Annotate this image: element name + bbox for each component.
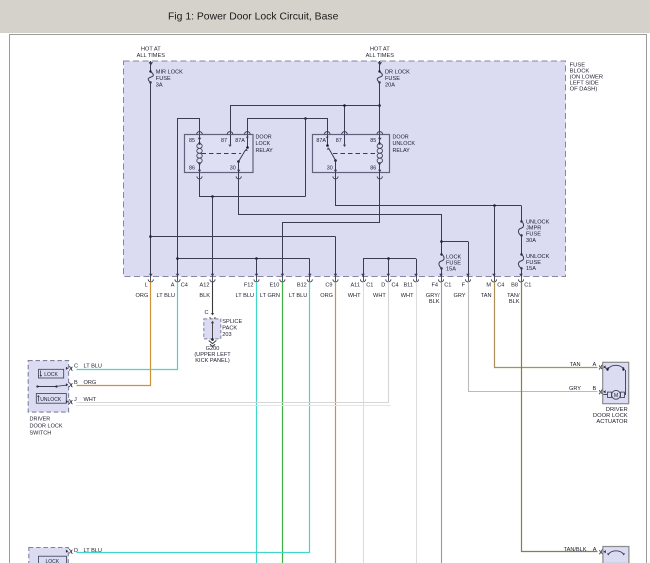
svg-text:TAN: TAN bbox=[570, 362, 581, 368]
fuse LOCK FUSE 15A bbox=[439, 253, 462, 276]
svg-text:15A: 15A bbox=[526, 266, 536, 272]
svg-text:F12: F12 bbox=[244, 282, 254, 288]
relay K1 pin 87 stub bbox=[228, 135, 231, 148]
relay K1 dashed link bbox=[202, 153, 242, 155]
title bar bbox=[0, 0, 650, 33]
svg-text:LT BLU: LT BLU bbox=[84, 364, 102, 370]
svg-text:ALL TIMES: ALL TIMES bbox=[137, 53, 166, 59]
svg-text:B: B bbox=[593, 386, 597, 392]
svg-text:JMPR: JMPR bbox=[526, 226, 541, 232]
wire WHT pin A11-C1 down bbox=[363, 282, 365, 563]
fuse block pin A12 bbox=[199, 274, 215, 299]
svg-text:PACK: PACK bbox=[222, 326, 237, 332]
fuse UNLOCK FUSE 15A bbox=[518, 253, 549, 276]
switch LOCK contact box bbox=[39, 369, 64, 378]
svg-text:UNLOCK: UNLOCK bbox=[526, 220, 550, 226]
wire B+ feed into DR LOCK fuse bbox=[378, 61, 382, 72]
svg-text:B: B bbox=[74, 380, 78, 386]
svg-text:SWITCH: SWITCH bbox=[30, 430, 52, 436]
wire LT GRN pin E10 down bbox=[282, 282, 284, 563]
wire 87A rail bbox=[247, 117, 327, 134]
wire relay2 86 to pin E10 bbox=[283, 173, 380, 277]
svg-text:85: 85 bbox=[189, 138, 195, 144]
actuator 2 pin A bbox=[564, 547, 606, 554]
wire B+ feed into MIR LOCK fuse bbox=[149, 61, 153, 72]
fuse block label bbox=[570, 63, 604, 93]
wire 87 rail bbox=[230, 104, 380, 134]
driver door lock actuator label bbox=[593, 407, 628, 425]
svg-text:85: 85 bbox=[370, 138, 376, 144]
svg-text:C: C bbox=[74, 364, 78, 370]
svg-text:D: D bbox=[74, 548, 78, 554]
svg-text:30A: 30A bbox=[526, 238, 536, 244]
svg-text:D: D bbox=[381, 282, 385, 288]
wire WHT spur bbox=[76, 405, 391, 407]
svg-text:KICK PANEL): KICK PANEL) bbox=[195, 358, 230, 364]
switch 2 pin D bbox=[66, 548, 102, 554]
svg-text:C9: C9 bbox=[325, 282, 332, 288]
svg-text:A: A bbox=[593, 362, 597, 368]
wire relay1 85 riser to pin A-C4 bbox=[176, 119, 199, 277]
label HOT AT ALL TIMES (right) bbox=[366, 47, 395, 60]
svg-text:F: F bbox=[462, 282, 466, 288]
svg-text:C1: C1 bbox=[366, 282, 373, 288]
switch pin J bbox=[66, 397, 97, 404]
svg-text:C1: C1 bbox=[524, 282, 531, 288]
svg-text:ORG: ORG bbox=[84, 380, 97, 386]
svg-text:MIR LOCK: MIR LOCK bbox=[156, 70, 183, 76]
svg-text:SPLICE: SPLICE bbox=[222, 319, 242, 325]
svg-text:20A: 20A bbox=[385, 83, 395, 89]
svg-text:L: L bbox=[145, 282, 148, 288]
svg-text:WHT: WHT bbox=[401, 293, 414, 299]
svg-text:87A: 87A bbox=[316, 138, 326, 144]
relay K1 label bbox=[256, 135, 274, 154]
svg-text:ACTUATOR: ACTUATOR bbox=[596, 419, 627, 425]
relay K1 box (DOOR LOCK RELAY) bbox=[185, 135, 254, 173]
wire GRY pin F to driver actuator pin B bbox=[469, 282, 598, 392]
wire lock fuse branch to pin F bbox=[442, 242, 469, 277]
relay K1 coil 85-86 bbox=[197, 135, 202, 173]
svg-text:86: 86 bbox=[370, 166, 376, 172]
fuse block pin L bbox=[136, 274, 154, 299]
fuse block pin M/C4 bbox=[481, 274, 505, 299]
svg-text:G200: G200 bbox=[206, 346, 220, 352]
fuse block pin B12 bbox=[289, 274, 313, 299]
svg-text:FUSE: FUSE bbox=[156, 76, 171, 82]
wire TAN pin M-C4 to driver actuator pin A bbox=[495, 282, 598, 368]
fuse UNLOCK JMPR FUSE 30A bbox=[518, 220, 549, 255]
wire BLK pin A12 to splice pack bbox=[204, 282, 215, 320]
svg-text:UNLOCK: UNLOCK bbox=[393, 141, 416, 147]
svg-text:C4: C4 bbox=[497, 282, 504, 288]
svg-text:M: M bbox=[614, 393, 618, 399]
wire BLK drop to pin A12 bbox=[212, 197, 214, 277]
svg-text:Fig 1: Power Door Lock Circuit: Fig 1: Power Door Lock Circuit, Base bbox=[168, 12, 339, 23]
svg-text:F4: F4 bbox=[431, 282, 438, 288]
svg-text:DR LOCK: DR LOCK bbox=[385, 70, 410, 76]
svg-text:FUSE: FUSE bbox=[526, 232, 541, 238]
relay K2 label bbox=[393, 135, 416, 154]
wire 87A rail to ground rail riser bbox=[305, 118, 307, 197]
switch pin C bbox=[66, 364, 102, 371]
switch 2 box (partial) bbox=[29, 548, 69, 563]
fuse block pin F bbox=[453, 274, 470, 299]
svg-text:BLK: BLK bbox=[199, 293, 210, 299]
fuse block (dashed box) bbox=[124, 61, 566, 277]
svg-text:UNLOCK: UNLOCK bbox=[526, 254, 550, 260]
wire TAN/BLK pin B8-C1 to actuator 2 pin A bbox=[522, 282, 598, 552]
wire ORG pin L to driver switch pin B bbox=[77, 282, 151, 386]
driver door lock switch box bbox=[28, 361, 68, 413]
relay K2 dashed link bbox=[333, 153, 378, 155]
wire LT BLU pin A-C4 to driver switch pin C bbox=[77, 282, 178, 370]
relay K2 box (DOOR UNLOCK RELAY) bbox=[313, 135, 390, 173]
svg-text:J: J bbox=[74, 397, 77, 403]
wire WHT bracket bbox=[363, 257, 417, 276]
svg-text:BLK: BLK bbox=[429, 299, 440, 305]
svg-text:WHT: WHT bbox=[373, 293, 386, 299]
svg-text:A: A bbox=[171, 282, 175, 288]
svg-text:A11: A11 bbox=[350, 282, 360, 288]
relay K2 pin cups bbox=[324, 132, 382, 179]
splice pack label bbox=[222, 319, 242, 338]
svg-text:86: 86 bbox=[189, 166, 195, 172]
svg-text:TAN: TAN bbox=[481, 293, 492, 299]
svg-text:LOCK: LOCK bbox=[446, 254, 462, 260]
wire LT BLU pin F12 down bbox=[256, 282, 258, 563]
relay K2 switch arm 30-87A bbox=[326, 135, 337, 173]
fuse block pin A11/C1 bbox=[348, 274, 374, 299]
fuse block pin D/C4 bbox=[373, 274, 399, 299]
fuse block pin A/C4 bbox=[157, 274, 188, 299]
svg-text:DOOR: DOOR bbox=[256, 135, 272, 141]
wire GRY/BLK pin F4-C1 down bbox=[441, 282, 443, 563]
svg-text:A12: A12 bbox=[200, 282, 210, 288]
svg-text:GRY: GRY bbox=[453, 293, 465, 299]
actuator pin A bbox=[570, 362, 606, 369]
svg-text:BLK: BLK bbox=[509, 299, 520, 305]
svg-text:RELAY: RELAY bbox=[256, 148, 274, 154]
svg-text:B11: B11 bbox=[403, 282, 413, 288]
actuator motor symbol bbox=[604, 365, 626, 399]
fuse block pin F12 bbox=[236, 274, 260, 299]
svg-text:HOT AT: HOT AT bbox=[370, 47, 390, 53]
fuse block pin C9 bbox=[320, 274, 338, 299]
wire relay1 30 to lock fuse bbox=[239, 173, 443, 254]
svg-text:(UPPER LEFT: (UPPER LEFT bbox=[194, 352, 231, 358]
switch 2 LOCK contact box bbox=[39, 556, 67, 563]
svg-text:203: 203 bbox=[222, 332, 231, 338]
wire LT BLU bracket bbox=[178, 257, 310, 276]
relay K1 pin labels bbox=[189, 138, 245, 172]
ground G200 label bbox=[194, 346, 231, 364]
svg-text:C1: C1 bbox=[444, 282, 451, 288]
ground G200 symbol bbox=[209, 341, 217, 347]
fuse block pin B11 bbox=[401, 274, 419, 299]
svg-text:LT BLU: LT BLU bbox=[157, 293, 175, 299]
wire WHT pin B11 down bbox=[416, 282, 418, 563]
svg-text:WHT: WHT bbox=[84, 397, 97, 403]
switch pin B bbox=[66, 380, 96, 387]
svg-text:HOT AT: HOT AT bbox=[141, 47, 161, 53]
relay K1 pin cups bbox=[197, 132, 250, 179]
relay K1 switch arm 30-87A bbox=[237, 135, 249, 173]
svg-text:87A: 87A bbox=[235, 138, 245, 144]
svg-text:WHT: WHT bbox=[348, 293, 361, 299]
fuse block pin F4/C1 bbox=[426, 274, 451, 305]
svg-text:LT BLU: LT BLU bbox=[289, 293, 307, 299]
svg-text:GRY: GRY bbox=[569, 386, 581, 392]
svg-text:E10: E10 bbox=[269, 282, 279, 288]
wire relay2 30 rail bbox=[336, 173, 522, 221]
actuator pin B bbox=[569, 386, 606, 394]
svg-text:C4: C4 bbox=[181, 282, 188, 288]
wire DR fuse down to relay2 pin 85 bbox=[378, 83, 381, 135]
fuse DR LOCK FUSE 20A bbox=[377, 70, 410, 89]
driver door lock actuator box bbox=[603, 362, 629, 403]
svg-text:87: 87 bbox=[221, 138, 227, 144]
svg-text:LT GRN: LT GRN bbox=[260, 293, 280, 299]
svg-text:ALL TIMES: ALL TIMES bbox=[366, 53, 395, 59]
splice pack SP203 box bbox=[204, 319, 221, 341]
fuse block pin E10 bbox=[260, 274, 285, 299]
svg-text:M: M bbox=[486, 282, 491, 288]
svg-text:LT BLU: LT BLU bbox=[84, 548, 102, 554]
wire ORG pin C9 down bbox=[335, 282, 337, 563]
svg-text:DRIVER: DRIVER bbox=[30, 416, 51, 422]
label HOT AT ALL TIMES (left) bbox=[137, 47, 166, 60]
svg-text:LOCK: LOCK bbox=[256, 141, 271, 147]
driver door lock switch label bbox=[30, 416, 63, 436]
svg-text:C4: C4 bbox=[392, 282, 399, 288]
svg-text:LT BLU: LT BLU bbox=[236, 293, 254, 299]
svg-text:A: A bbox=[593, 547, 597, 553]
wire MIR fuse to junction and pin L bbox=[149, 83, 152, 277]
svg-text:B8: B8 bbox=[511, 282, 518, 288]
svg-text:DOOR LOCK: DOOR LOCK bbox=[30, 423, 63, 429]
svg-text:B12: B12 bbox=[297, 282, 307, 288]
switch wiper bbox=[36, 385, 66, 388]
svg-text:UNLOCK: UNLOCK bbox=[40, 397, 62, 403]
wire ORG rail pin L to pin C9 bbox=[151, 237, 336, 277]
svg-text:30: 30 bbox=[230, 166, 236, 172]
svg-text:30: 30 bbox=[327, 166, 333, 172]
relay K2 coil 85-86 bbox=[377, 135, 382, 173]
svg-text:3A: 3A bbox=[156, 83, 163, 89]
wire WHT pin D-C4 to driver switch pin J bbox=[77, 282, 389, 403]
svg-text:TAN/BLK: TAN/BLK bbox=[564, 547, 587, 553]
svg-text:87: 87 bbox=[336, 138, 342, 144]
switch UNLOCK contact box bbox=[36, 394, 66, 404]
svg-text:LOCK: LOCK bbox=[44, 372, 58, 378]
svg-text:ORG: ORG bbox=[320, 293, 333, 299]
svg-text:ORG: ORG bbox=[136, 293, 149, 299]
wire LT BLU pin B12 to switch 2 pin D bbox=[77, 282, 310, 553]
fuse block pin B8/C1 bbox=[507, 274, 531, 305]
svg-text:LOCK: LOCK bbox=[46, 559, 60, 563]
svg-text:DOOR: DOOR bbox=[393, 135, 409, 141]
svg-text:FUSE: FUSE bbox=[385, 76, 400, 82]
actuator 2 box (partial) bbox=[603, 547, 629, 563]
svg-text:RELAY: RELAY bbox=[393, 148, 411, 154]
svg-text:OF DASH): OF DASH) bbox=[570, 87, 598, 93]
relay K2 pin 87 stub bbox=[343, 135, 346, 148]
fuse MIR LOCK FUSE 3A bbox=[148, 70, 183, 89]
svg-text:C: C bbox=[204, 310, 208, 316]
wire TAN drop to pin M-C4 bbox=[494, 206, 496, 277]
svg-text:15A: 15A bbox=[446, 266, 456, 272]
relay K2 pin labels bbox=[316, 138, 376, 172]
wire ground rail / relay1 86 bbox=[200, 173, 306, 198]
